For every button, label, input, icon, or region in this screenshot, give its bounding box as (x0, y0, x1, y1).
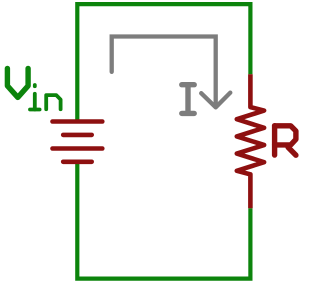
battery voltage source Vin (plate 1, long) (53, 119, 103, 124)
resistor R (zigzag with leads) (237, 74, 264, 208)
wire: bottom + lower-left + lower-right green loop segment (77, 161, 250, 279)
battery plate 2 (short) (63, 133, 91, 138)
battery plate 4 (short) (63, 160, 91, 165)
label Vin: subscript i (30, 85, 40, 110)
current direction arrow (gray bracket) (112, 37, 216, 106)
label Vin: subscript n (46, 95, 60, 109)
current arrowhead (201, 93, 230, 108)
label I (current) (182, 85, 194, 114)
battery plate 3 (long) (53, 146, 103, 151)
label R (resistor) (275, 126, 296, 156)
label Vin: letter V (7, 68, 28, 97)
wire: top + upper-left + upper-right green loop segment (77, 4, 250, 122)
